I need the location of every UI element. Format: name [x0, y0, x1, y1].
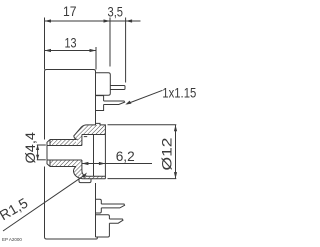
- hatch flange top: [74, 125, 106, 146]
- dim Ø12: [108, 124, 177, 126]
- body outline: [45, 70, 98, 240]
- svg-text:Ø4,4: Ø4,4: [22, 132, 38, 164]
- pin A: [101, 204, 124, 208]
- lip under flange: [79, 179, 91, 183]
- body right edge lower: [95, 183, 97, 237]
- svg-text:EP A2000: EP A2000: [2, 237, 22, 242]
- leader 1x1.15: [127, 90, 163, 104]
- dimension line 13: [45, 50, 97, 52]
- leader R1,5: [3, 176, 83, 231]
- svg-text:1x1.15: 1x1.15: [162, 84, 196, 100]
- svg-text:17: 17: [63, 3, 77, 19]
- extension line x110: [109, 18, 111, 67]
- pin 2 with tapered tip: [104, 101, 125, 105]
- barrel tube outline: [47, 140, 76, 167]
- extension line x125.6: [125, 18, 127, 83]
- flange outline: [74, 123, 106, 178]
- flange inner cavity: [82, 135, 106, 177]
- dimension line 17 / 3,5: [45, 20, 141, 22]
- hatch bottom tube wall: [50, 160, 76, 167]
- arrow 17 right / 3,5 left: [104, 19, 111, 22]
- arrow 13 right: [90, 49, 97, 52]
- pin 1 top: [110, 86, 125, 90]
- extension line left x44.5: [44, 18, 46, 70]
- chamfer tick in cavity: [84, 136, 87, 138]
- flange bottom with R1,5 corner: [73, 167, 105, 179]
- arrow 3,5 right: [126, 19, 133, 22]
- svg-text:13: 13: [65, 35, 77, 51]
- bore lines: [47, 145, 82, 147]
- svg-text:3,5: 3,5: [108, 3, 124, 19]
- hatch top tube wall: [50, 140, 76, 146]
- bottom block 1: [96, 199, 102, 213]
- dim Ø4,4: [37, 144, 46, 146]
- block for pin 2: [96, 96, 104, 111]
- arrow 17 left: [45, 19, 52, 22]
- svg-text:Ø12: Ø12: [159, 137, 175, 170]
- dim 6,2: [82, 163, 152, 165]
- bottom block 2: [96, 215, 110, 237]
- hatch flange bottom: [73, 160, 105, 179]
- arrow 13 left: [45, 49, 52, 52]
- pin B: [109, 219, 123, 223]
- extension line x96: [95, 47, 97, 70]
- svg-text:6,2: 6,2: [116, 148, 135, 164]
- rear cap: [96, 73, 111, 96]
